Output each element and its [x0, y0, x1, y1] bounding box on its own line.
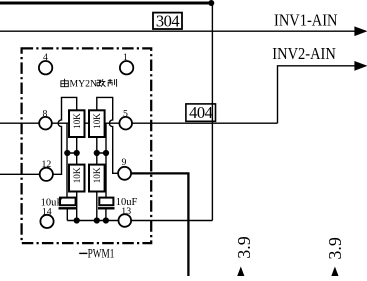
svg-text:INV1-AIN: INV1-AIN [274, 11, 338, 30]
svg-text:INV2-AIN: INV2-AIN [272, 44, 336, 63]
svg-text:1: 1 [123, 52, 128, 63]
svg-text:10K: 10K [72, 167, 82, 183]
svg-text:304: 304 [156, 11, 180, 30]
svg-text:9: 9 [122, 157, 127, 168]
svg-text:3.9: 3.9 [325, 237, 345, 260]
svg-text:4: 4 [43, 52, 48, 63]
svg-text:10K: 10K [72, 113, 82, 129]
svg-text:MY2NJ: MY2NJ [70, 79, 101, 90]
svg-text:14: 14 [42, 207, 52, 218]
svg-text:12: 12 [42, 159, 52, 170]
svg-text:13: 13 [121, 206, 131, 217]
svg-text:10K: 10K [92, 113, 102, 129]
svg-text:404: 404 [189, 103, 213, 122]
svg-text:10K: 10K [92, 167, 102, 183]
svg-text:PWM1: PWM1 [88, 246, 115, 260]
svg-text:5: 5 [123, 108, 128, 119]
svg-text:8: 8 [43, 108, 48, 119]
svg-text:3.9: 3.9 [234, 236, 254, 259]
